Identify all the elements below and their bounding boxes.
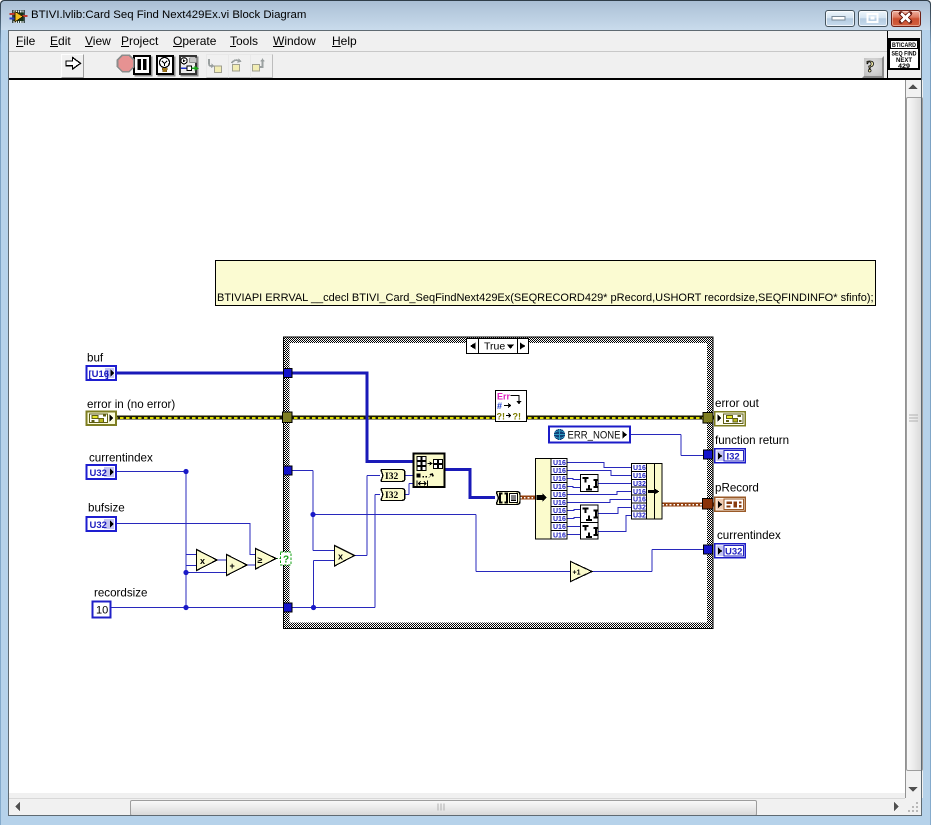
unbundle-to-bundle wires bbox=[567, 463, 631, 535]
step into glyph bbox=[209, 59, 222, 73]
svg-text:U16: U16 bbox=[553, 500, 566, 507]
terminal error in bbox=[87, 412, 117, 426]
svg-text:U16: U16 bbox=[553, 524, 566, 531]
buf wire bbox=[117, 372, 495, 498]
svg-text:U32: U32 bbox=[90, 520, 107, 531]
wire add-out bbox=[247, 564, 255, 566]
I32 conversion a bbox=[381, 470, 405, 483]
join numbers 1 bbox=[581, 475, 599, 492]
cluster wire pRecord bbox=[662, 503, 714, 507]
vscroll down arrow bbox=[909, 787, 918, 792]
terminal pRecord bbox=[715, 497, 746, 511]
error code icon bbox=[496, 391, 527, 422]
constant 10 bbox=[93, 602, 111, 618]
retain wire values button bbox=[179, 55, 197, 75]
svg-text:429: 429 bbox=[898, 63, 910, 70]
wire I32b-out bbox=[405, 484, 413, 495]
svg-text:Err: Err bbox=[497, 392, 511, 402]
svg-text:U16: U16 bbox=[553, 516, 566, 523]
join numbers 2 bbox=[581, 505, 599, 523]
greater-or-equal ext bbox=[256, 549, 277, 570]
svg-text:10: 10 bbox=[96, 605, 108, 617]
minimize glyph bbox=[832, 17, 845, 21]
wire bufsize bbox=[117, 524, 255, 555]
wire increment-out bbox=[592, 550, 704, 572]
svg-text:U16: U16 bbox=[553, 492, 566, 499]
vscroll grip bbox=[909, 415, 918, 421]
tunnel function return bbox=[704, 450, 713, 459]
maximize button bbox=[858, 10, 888, 27]
svg-text:x: x bbox=[200, 556, 205, 566]
run button bbox=[61, 54, 84, 78]
wire errnone-out bbox=[631, 435, 704, 456]
svg-text:U16: U16 bbox=[553, 484, 566, 491]
resize grip bbox=[908, 802, 918, 812]
svg-text:U16: U16 bbox=[633, 489, 646, 496]
wire multiply2-out bbox=[354, 476, 380, 556]
svg-text:U32: U32 bbox=[633, 505, 646, 512]
svg-text:U32: U32 bbox=[725, 547, 742, 558]
vertical scrollbar bbox=[905, 80, 923, 798]
junction dots bbox=[183, 469, 316, 610]
boolean wire selector bbox=[276, 558, 281, 560]
abort glyph bbox=[118, 55, 134, 71]
tunnel error out bbox=[703, 413, 713, 424]
svg-text:?: ? bbox=[866, 57, 875, 76]
hscroll grip bbox=[438, 804, 444, 811]
DLL declaration label bbox=[216, 261, 876, 306]
svg-text:U32: U32 bbox=[633, 481, 646, 488]
close button bbox=[891, 10, 921, 27]
wire I32a-out bbox=[405, 475, 413, 477]
terminal buf U16 bbox=[87, 366, 117, 380]
VI icon text bbox=[891, 41, 918, 71]
error wire bbox=[117, 416, 714, 420]
svg-text:recordsize: recordsize bbox=[94, 587, 147, 600]
wire currentindex bbox=[117, 472, 226, 608]
svg-text:function return: function return bbox=[715, 434, 789, 447]
svg-text:+1: +1 bbox=[573, 570, 581, 577]
lightbulb glyph bbox=[160, 58, 170, 72]
vscroll up arrow bbox=[909, 84, 918, 89]
svg-text:≥: ≥ bbox=[258, 555, 263, 565]
svg-text:BTICARD: BTICARD bbox=[892, 42, 916, 49]
svg-text:error in (no error): error in (no error) bbox=[87, 398, 175, 411]
help button bbox=[862, 56, 884, 78]
wire multiply-out bbox=[217, 559, 226, 561]
terminal error out bbox=[715, 412, 746, 426]
step over button bbox=[228, 54, 251, 78]
svg-text:currentindex: currentindex bbox=[89, 452, 153, 465]
svg-text:ERR_NONE: ERR_NONE bbox=[568, 430, 621, 442]
tunnel pRecord bbox=[703, 499, 714, 510]
terminal bufsize U32 bbox=[87, 517, 117, 531]
pause glyph bbox=[138, 59, 147, 70]
svg-text:U16: U16 bbox=[633, 497, 646, 504]
array subset node bbox=[414, 454, 445, 488]
svg-text:I32: I32 bbox=[385, 472, 398, 482]
VI icon box bbox=[888, 38, 920, 70]
close glyph bbox=[901, 14, 910, 22]
thin blue wires bbox=[111, 435, 704, 608]
terminal currentindex U32 bbox=[87, 465, 117, 479]
svg-text:U16: U16 bbox=[553, 533, 566, 540]
toolbar bbox=[9, 52, 887, 78]
tunnel currentindex out bbox=[704, 545, 713, 554]
tunnel error in bbox=[283, 412, 293, 423]
svg-text:U16: U16 bbox=[633, 473, 646, 480]
svg-text:?: ? bbox=[283, 555, 289, 566]
svg-text:U16: U16 bbox=[553, 476, 566, 483]
titlebar LabVIEW icon bbox=[10, 10, 28, 23]
svg-text:?!: ?! bbox=[497, 412, 506, 422]
step out button bbox=[250, 54, 273, 78]
step into button bbox=[206, 54, 229, 78]
svg-text:bufsize: bufsize bbox=[88, 502, 125, 515]
svg-text:x: x bbox=[338, 552, 343, 562]
abort button bbox=[112, 54, 133, 76]
wire recordsize inside bbox=[292, 495, 380, 608]
svg-text:U16: U16 bbox=[553, 508, 566, 515]
title bar bbox=[1, 1, 930, 30]
svg-text:error out: error out bbox=[715, 397, 760, 410]
svg-text:U16: U16 bbox=[633, 465, 646, 472]
case selector label bbox=[467, 339, 529, 354]
svg-text:]: ] bbox=[106, 369, 109, 380]
I32 conversion b bbox=[381, 489, 405, 502]
add ext bbox=[227, 555, 248, 576]
svg-text:I32: I32 bbox=[727, 452, 740, 463]
svg-text:+: + bbox=[230, 561, 235, 571]
join numbers 3 bbox=[581, 523, 599, 540]
multiply inside bbox=[335, 546, 355, 567]
svg-text:#: # bbox=[497, 401, 502, 411]
wire recordsize bbox=[111, 607, 284, 609]
menu bar bbox=[9, 31, 887, 51]
ERR_NONE constant bbox=[549, 427, 630, 443]
case structure border bbox=[283, 337, 714, 630]
step over glyph bbox=[232, 59, 242, 72]
run arrow glyph bbox=[66, 58, 81, 70]
terminal function return I32 bbox=[715, 449, 746, 463]
highlight execution button bbox=[156, 55, 174, 75]
unbundle node bbox=[536, 459, 568, 540]
pause button bbox=[133, 55, 151, 75]
hscroll left arrow bbox=[15, 802, 20, 811]
svg-text:BTIVIAPI ERRVAL __cdecl BTIVI_: BTIVIAPI ERRVAL __cdecl BTIVI_Card_SeqFi… bbox=[217, 292, 874, 304]
tunnel currentindex bbox=[284, 466, 293, 475]
increment +1 bbox=[571, 562, 593, 582]
array to cluster node bbox=[497, 492, 521, 505]
svg-text:I32: I32 bbox=[385, 491, 398, 501]
svg-text:U16: U16 bbox=[553, 468, 566, 475]
svg-text:U16: U16 bbox=[553, 460, 566, 467]
svg-text:currentindex: currentindex bbox=[717, 529, 781, 542]
svg-text:U32: U32 bbox=[633, 513, 646, 520]
maximize glyph bbox=[868, 14, 878, 22]
tunnel buf bbox=[284, 369, 293, 378]
retain wires glyph bbox=[181, 58, 199, 71]
hscroll right arrow bbox=[894, 802, 899, 811]
wire currentindex inside bbox=[292, 471, 570, 572]
svg-text:?!: ?! bbox=[513, 412, 522, 422]
step out glyph bbox=[253, 58, 265, 71]
multiply ext bbox=[197, 550, 218, 571]
minimize button bbox=[825, 10, 855, 27]
svg-text:pRecord: pRecord bbox=[715, 482, 759, 495]
svg-text:buf: buf bbox=[87, 352, 104, 365]
svg-text:True: True bbox=[484, 341, 505, 353]
selector tunnel ? bbox=[281, 552, 292, 566]
svg-text:U32: U32 bbox=[90, 468, 107, 479]
terminal currentindex out U32 bbox=[715, 544, 746, 558]
cluster wire array-to-cluster out bbox=[520, 496, 535, 500]
bundle node bbox=[632, 464, 663, 520]
tunnel recordsize bbox=[284, 603, 293, 612]
horizontal scrollbar bbox=[9, 798, 905, 816]
